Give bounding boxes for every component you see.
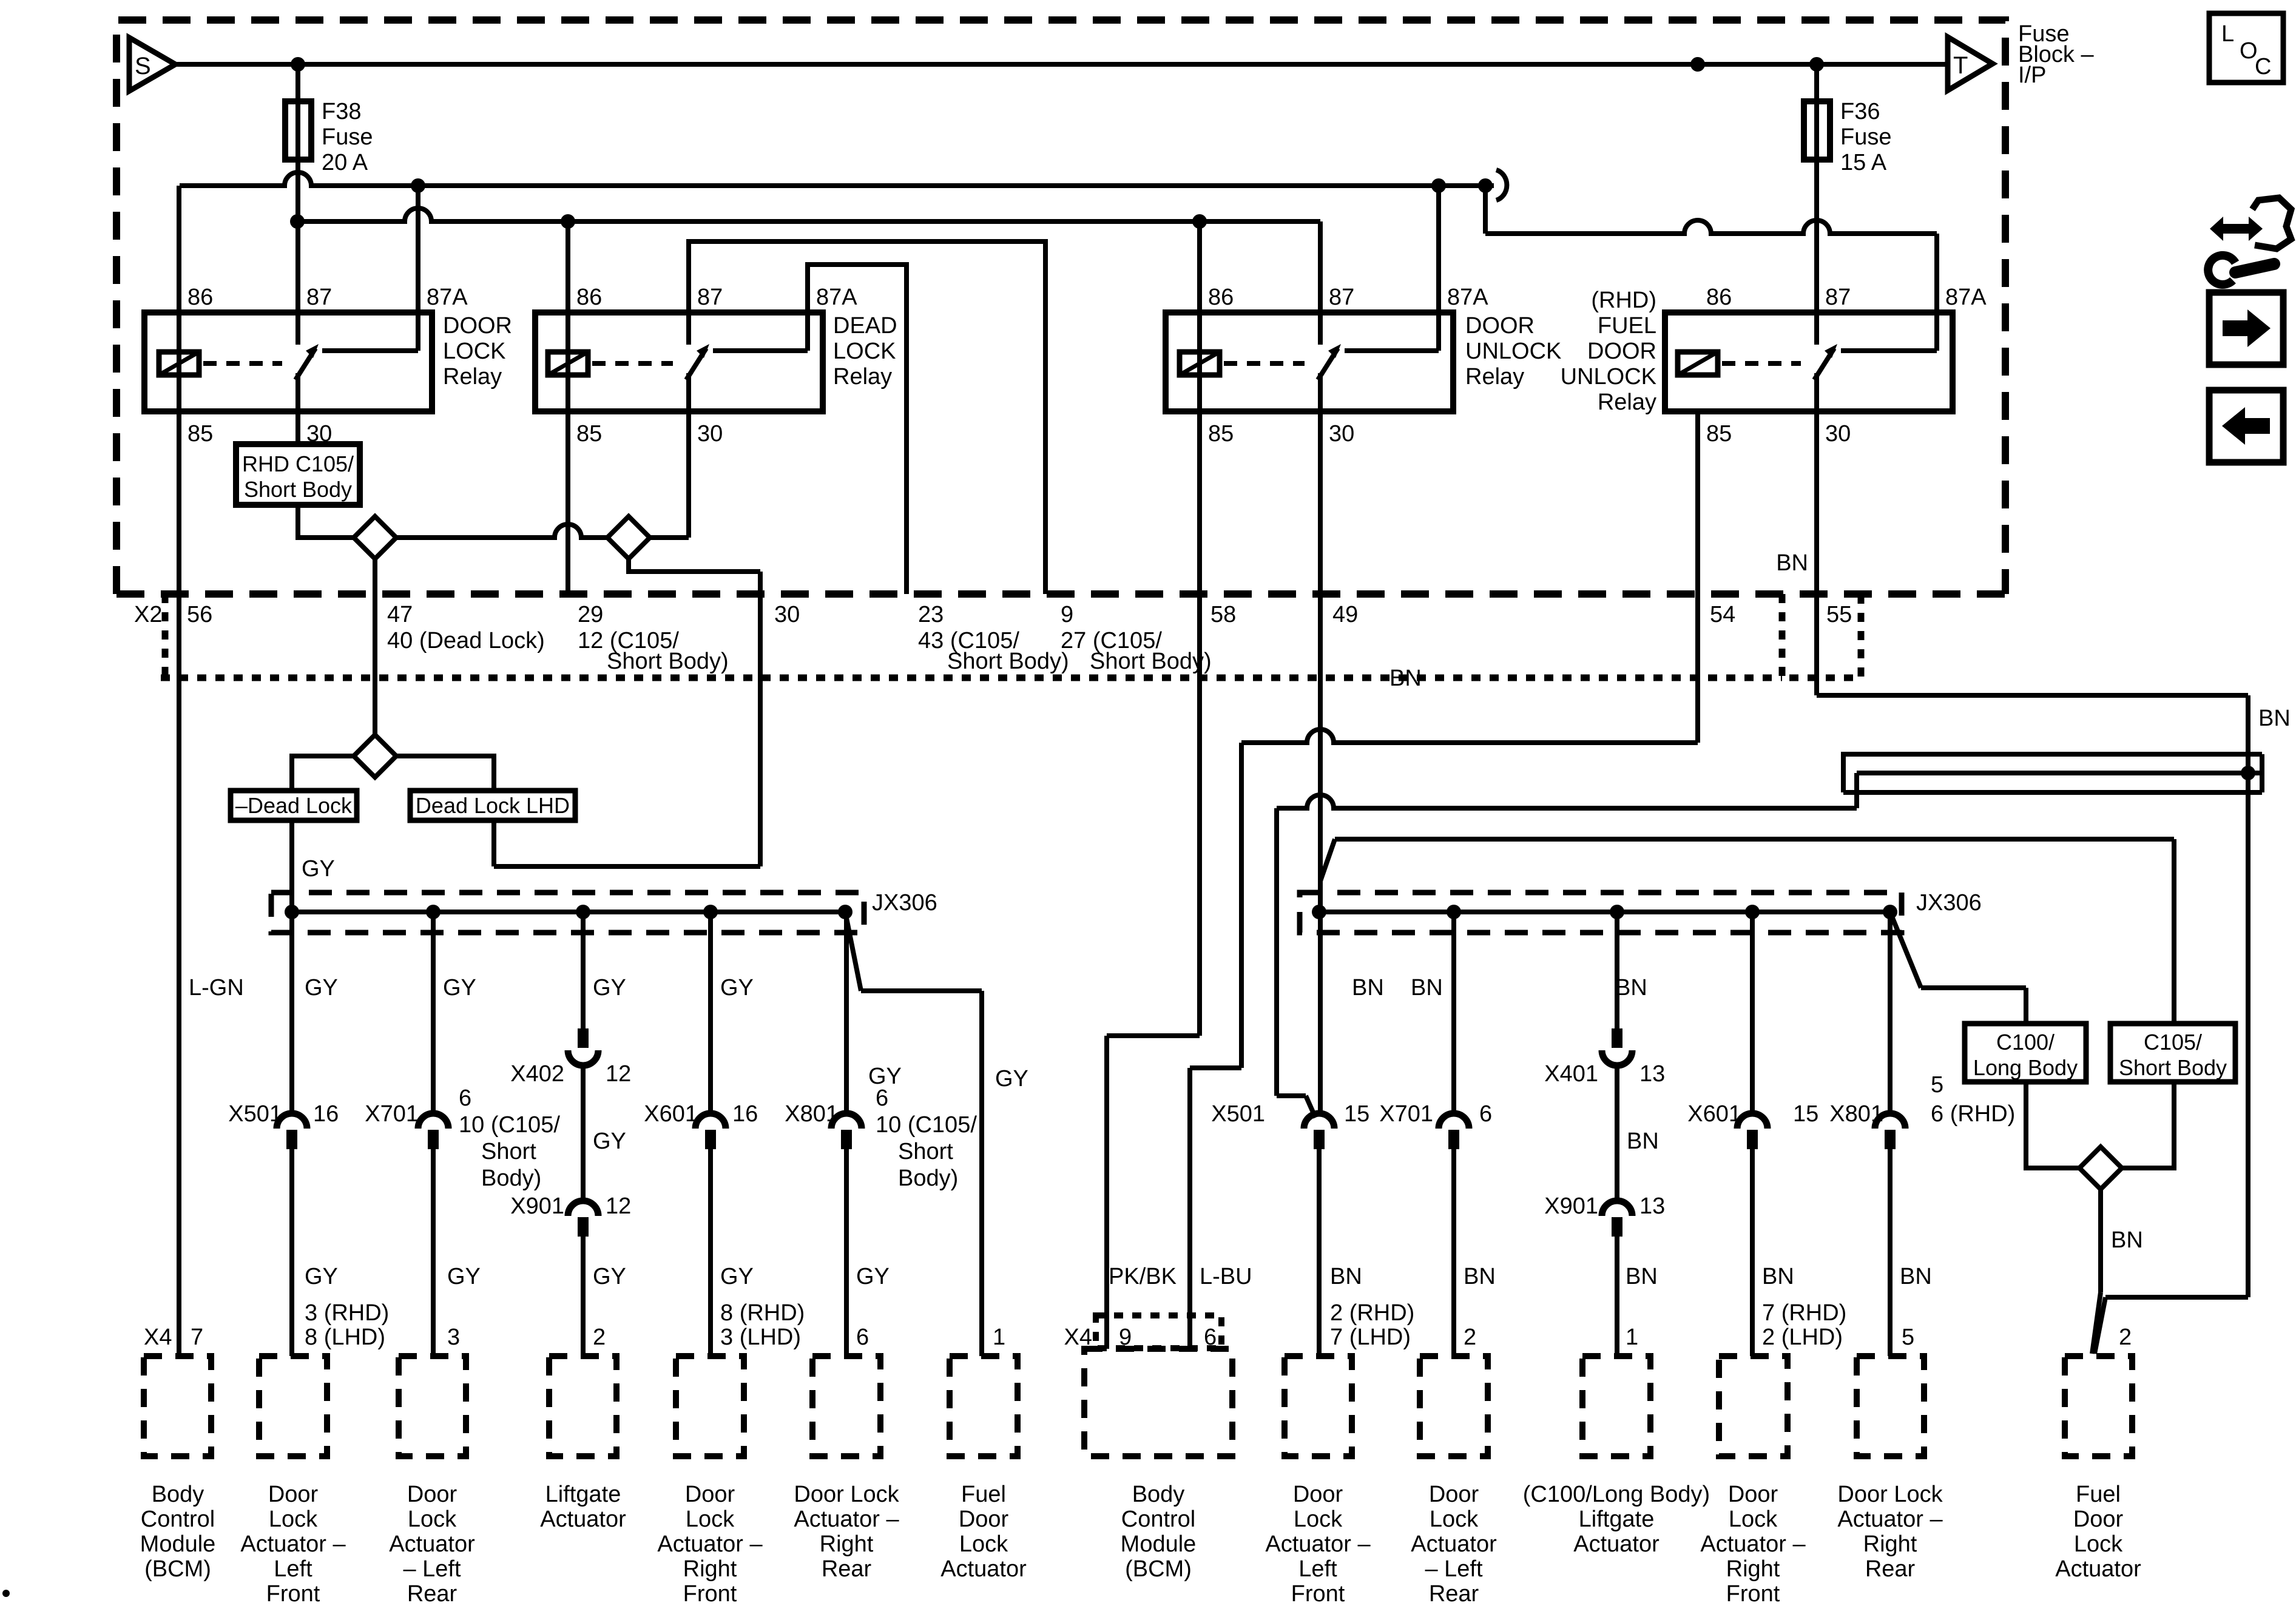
junction: wire A drop to fuel relay branch — [1478, 178, 1493, 193]
label X2 — [134, 602, 162, 627]
component box: Door Lock Actuator Right Rear (left) — [794, 1356, 899, 1582]
svg-text:Door: Door — [407, 1482, 458, 1507]
svg-text:Body): Body) — [898, 1166, 958, 1191]
svg-text:X2: X2 — [134, 602, 162, 627]
svg-text:F36: F36 — [1840, 99, 1880, 124]
label X2 pin 54 — [1710, 602, 1735, 627]
svg-text:BN: BN — [1330, 1264, 1362, 1289]
junction on JX306-right at 2174 — [1312, 905, 1326, 919]
svg-text:6 (RHD): 6 (RHD) — [1931, 1101, 2015, 1127]
svg-text:C: C — [2255, 54, 2271, 79]
svg-text:Actuator: Actuator — [389, 1531, 475, 1557]
svg-text:Lock: Lock — [1294, 1507, 1343, 1532]
relay K3 DOOR UNLOCK — [1166, 285, 1561, 447]
svg-text:DOOR: DOOR — [1587, 339, 1656, 364]
svg-text:2 (RHD): 2 (RHD) — [1330, 1300, 1414, 1326]
wire: relay3-85 to PK/BK BCM — [1107, 1036, 1200, 1349]
svg-text:Fuel: Fuel — [961, 1482, 1006, 1507]
wire: liftgate actuator chain upper — [581, 912, 586, 1030]
label L-GN — [189, 975, 244, 1001]
svg-text:Short: Short — [898, 1139, 953, 1164]
svg-text:30: 30 — [1329, 421, 1354, 447]
junction: bus to F36 — [1809, 57, 1824, 72]
label GY row2 737 — [447, 1264, 481, 1289]
wire: door lock relay 87A drop — [416, 186, 420, 351]
svg-text:16: 16 — [313, 1101, 339, 1127]
label GY row2 1187 — [720, 1264, 754, 1289]
svg-text:Door Lock: Door Lock — [1837, 1482, 1943, 1507]
wire: splice S3 to Dead Lock LHD box — [396, 756, 494, 791]
svg-text:Short: Short — [481, 1139, 536, 1164]
svg-text:29: 29 — [578, 602, 603, 627]
connector X901 left — [510, 1193, 631, 1237]
wire below X601R — [1750, 1148, 1755, 1356]
connector X701 left — [365, 1085, 560, 1191]
svg-text:Relay: Relay — [443, 364, 502, 390]
svg-text:Right: Right — [820, 1531, 874, 1557]
pin label DLA-RF left — [720, 1300, 805, 1350]
svg-text:GY: GY — [593, 1264, 626, 1289]
wire: fuel relay 87A branch — [1485, 186, 1937, 351]
label X2 pin 9 alt — [1061, 628, 1212, 674]
wire: door lock relay 86 / BCM L-GN run — [177, 186, 181, 1356]
connector X701 right — [1379, 1101, 1492, 1149]
svg-text:30: 30 — [697, 421, 723, 447]
svg-text:7: 7 — [191, 1325, 203, 1350]
icon arrow-right box — [2209, 292, 2283, 365]
fuse F36 15A — [1804, 99, 1891, 175]
svg-text:Rear: Rear — [822, 1556, 872, 1582]
icon repair tool (wrench) — [2208, 198, 2291, 285]
svg-text:87: 87 — [1329, 285, 1354, 310]
label X2 pin 23 alt — [918, 628, 1069, 674]
junction: bus to fuel door unlock relay 86 — [1690, 57, 1705, 72]
svg-text:1: 1 — [993, 1325, 1005, 1350]
svg-text:Rear: Rear — [407, 1581, 458, 1607]
wire: JX306R to X701R — [1451, 912, 1456, 1116]
svg-text:Actuator –: Actuator – — [240, 1531, 346, 1557]
wire: BN loop middle to X501R branch — [1857, 773, 2262, 808]
svg-text:Door: Door — [1728, 1482, 1778, 1507]
label GY mid a — [868, 1064, 902, 1089]
pin label liftgate right — [1626, 1325, 1638, 1350]
svg-text:(BCM): (BCM) — [1125, 1556, 1192, 1582]
svg-text:7 (RHD): 7 (RHD) — [1762, 1300, 1846, 1326]
svg-text:Lock: Lock — [1729, 1507, 1778, 1532]
svg-text:BN: BN — [1352, 975, 1384, 1001]
off-page connector T (to Fuse Block I/P) — [1948, 37, 1993, 90]
relay K2 DEAD LOCK — [535, 285, 897, 447]
svg-text:C100/: C100/ — [1996, 1030, 2055, 1055]
connector X601 right — [1687, 1101, 1818, 1149]
svg-text:13: 13 — [1639, 1061, 1665, 1087]
svg-text:6: 6 — [459, 1085, 471, 1111]
svg-text:10 (C105/: 10 (C105/ — [459, 1112, 560, 1138]
wire: door lock relay 30 to RHD C105 connector — [295, 373, 300, 444]
pin label BCM-left X4 7 — [144, 1325, 203, 1350]
svg-text:Actuator: Actuator — [540, 1507, 626, 1532]
svg-text:Short Body): Short Body) — [607, 649, 729, 674]
svg-text:X701: X701 — [1379, 1101, 1433, 1127]
svg-text:Actuator –: Actuator – — [794, 1507, 899, 1532]
svg-text:T: T — [1953, 52, 1968, 79]
svg-text:BN: BN — [1389, 666, 1422, 691]
label X2 pin 9 — [1061, 602, 1073, 627]
svg-text:X801: X801 — [785, 1101, 839, 1127]
svg-text:56: 56 — [187, 602, 212, 627]
component box: Liftgate Actuator (left) — [540, 1356, 626, 1532]
wire X402 to X901 — [581, 1064, 586, 1201]
component box: Door Lock Actuator Left Front (right) — [1265, 1356, 1371, 1607]
label X2 pin 29 — [578, 602, 603, 627]
label BN relay4-30 — [1776, 550, 1808, 576]
pin label fuel right — [2119, 1325, 2132, 1350]
svg-text:LOCK: LOCK — [833, 339, 896, 364]
svg-text:58: 58 — [1210, 602, 1236, 627]
pin label DLA-LF right — [1330, 1300, 1414, 1350]
label GY row2 502 — [305, 1264, 338, 1289]
svg-text:I/P: I/P — [2018, 62, 2046, 88]
junction on JX306-left at 1393 — [838, 905, 853, 919]
splice diamond S4 — [2079, 1147, 2122, 1189]
connector X601 left — [644, 1101, 758, 1149]
svg-text:BN: BN — [1900, 1264, 1932, 1289]
svg-text:Short Body): Short Body) — [947, 649, 1069, 674]
svg-text:Control: Control — [141, 1507, 215, 1532]
svg-text:Door: Door — [2073, 1507, 2124, 1532]
component box: Door Lock Actuator Left Front (left) — [240, 1356, 346, 1607]
wire: JX306 to X501 (door lock act LF) — [431, 912, 436, 1116]
svg-text:Body: Body — [152, 1482, 204, 1507]
svg-text:Lock: Lock — [1430, 1507, 1479, 1532]
label GY row1 730 — [443, 975, 476, 1001]
icon LOC box — [2209, 13, 2283, 83]
svg-text:Relay: Relay — [833, 364, 892, 390]
svg-text:Actuator: Actuator — [940, 1556, 1027, 1582]
svg-text:23: 23 — [918, 602, 944, 627]
svg-text:85: 85 — [576, 421, 602, 447]
svg-text:86: 86 — [187, 285, 213, 310]
junction: wire A to door lock relay 87A — [411, 178, 425, 193]
svg-text:GY: GY — [995, 1066, 1028, 1092]
svg-text:Door: Door — [268, 1482, 319, 1507]
junction: F38 output — [290, 214, 305, 229]
svg-text:Actuator –: Actuator – — [657, 1531, 763, 1557]
svg-text:Relay: Relay — [1465, 364, 1524, 390]
connector X401 — [1544, 1028, 1665, 1087]
svg-text:X601: X601 — [1687, 1101, 1741, 1127]
svg-text:15 A: 15 A — [1840, 150, 1887, 175]
svg-text:Body): Body) — [481, 1166, 541, 1191]
pin label BCM-right X4 9 6 — [1064, 1325, 1217, 1350]
svg-text:GY: GY — [593, 975, 626, 1001]
svg-text:GY: GY — [856, 1264, 890, 1289]
svg-text:15: 15 — [1793, 1101, 1818, 1127]
wire: BN loop outer — [1843, 754, 2262, 792]
svg-text:Right: Right — [1863, 1531, 1917, 1557]
pin label DLA-LR right — [1464, 1325, 1476, 1350]
label GY row2 977 — [593, 1264, 626, 1289]
wire: splice S2 to dead lock relay 30 — [650, 373, 689, 538]
connector box RHD C105/Short Body — [236, 444, 360, 505]
wire: JX306 to X801 (door lock act RR) — [844, 912, 849, 1116]
svg-text:Front: Front — [266, 1581, 320, 1607]
connector box C100/Long Body — [1965, 1024, 2086, 1082]
junction on JX306-right at 2665 — [1610, 905, 1624, 919]
connector X2 pin 55 dotted pocket — [1782, 594, 1861, 678]
svg-text:30: 30 — [774, 602, 800, 627]
wire below X701R — [1451, 1148, 1456, 1356]
wire X401 to X901R — [1615, 1064, 1619, 1201]
wire: door unlock relay 87 drop — [1318, 221, 1323, 345]
svg-text:47: 47 — [387, 602, 413, 627]
wire: C100 to splice S4 — [2026, 1082, 2079, 1168]
label GY above JX306 — [302, 856, 335, 882]
label GY liftgate mid — [593, 1129, 626, 1154]
svg-text:12: 12 — [606, 1193, 631, 1219]
wire below X501 left — [289, 1148, 294, 1356]
wire: splice S2 to X2 pin 30 and Dead Lock LHD — [494, 559, 760, 866]
wire: splice S4 to fuel actuator right — [2092, 1189, 2101, 1354]
wire: relay4-85 X2-54 to L-BU — [1190, 411, 1698, 1349]
svg-text:GY: GY — [305, 1264, 338, 1289]
svg-text:F38: F38 — [322, 99, 361, 124]
wire: relay4-30 X2-55 BN run — [1817, 373, 2248, 1354]
svg-text:Relay: Relay — [1598, 390, 1656, 415]
svg-text:Door: Door — [1293, 1482, 1343, 1507]
junction on JX306-left at 714 — [426, 905, 441, 919]
svg-text:2: 2 — [593, 1325, 606, 1350]
page dot — [2, 1590, 10, 1597]
label X2 pin 49 — [1332, 602, 1358, 627]
svg-text:87: 87 — [306, 285, 332, 310]
svg-text:Door: Door — [1429, 1482, 1479, 1507]
label BN row2 2679 — [1626, 1264, 1658, 1289]
wire: dead lock relay 87 to X2 pin 9 — [689, 241, 1045, 594]
wire: C105 to splice S4 — [2122, 1082, 2174, 1168]
svg-text:87A: 87A — [1945, 285, 1987, 310]
label Fuse Block - I/P — [2018, 21, 2094, 88]
junction: wire A to door unlock relay 87A — [1431, 178, 1446, 193]
svg-text:GY: GY — [868, 1064, 902, 1089]
wire: RHD C105 to splice diamond — [298, 505, 354, 538]
svg-text:Actuator: Actuator — [2055, 1556, 2141, 1582]
svg-text:(BCM): (BCM) — [144, 1556, 211, 1582]
wire below X701 left — [431, 1148, 436, 1356]
svg-text:Fuse: Fuse — [1840, 124, 1891, 150]
wire: dead lock relay 86/85 run — [566, 221, 570, 594]
svg-text:Lock: Lock — [408, 1507, 457, 1532]
svg-text:Short Body): Short Body) — [1090, 649, 1212, 674]
svg-text:6: 6 — [876, 1085, 888, 1111]
connector X901 right — [1544, 1193, 1665, 1237]
wire below X801R — [1888, 1148, 1893, 1356]
connector X2 row dashed line — [116, 590, 2005, 598]
svg-text:3 (LHD): 3 (LHD) — [720, 1325, 801, 1350]
svg-text:C105/: C105/ — [2144, 1030, 2202, 1055]
svg-text:X801: X801 — [1829, 1101, 1883, 1127]
svg-text:FUEL: FUEL — [1598, 313, 1656, 339]
svg-text:5: 5 — [1902, 1325, 1914, 1350]
relay K4 FUEL DOOR UNLOCK — [1561, 285, 1987, 447]
svg-text:Module: Module — [1121, 1531, 1197, 1557]
svg-text:BN: BN — [1776, 550, 1808, 576]
svg-text:JX306: JX306 — [872, 890, 937, 916]
svg-text:Dead Lock LHD: Dead Lock LHD — [416, 793, 570, 818]
svg-text:PK/BK: PK/BK — [1109, 1264, 1177, 1289]
label BN row2 3131 — [1900, 1264, 1932, 1289]
component box: Door Lock Actuator Right Front (left) — [657, 1356, 763, 1607]
wire below X801 left — [844, 1148, 849, 1356]
svg-text:RHD C105/: RHD C105/ — [242, 451, 354, 476]
svg-text:BN: BN — [1627, 1129, 1659, 1154]
svg-text:Control: Control — [1121, 1507, 1196, 1532]
svg-text:1: 1 — [1626, 1325, 1638, 1350]
svg-text:L-GN: L-GN — [189, 975, 244, 1001]
label X2 pin 47 alt — [387, 628, 545, 653]
label X2 pin 23 — [918, 602, 944, 627]
svg-text:40 (Dead Lock): 40 (Dead Lock) — [387, 628, 545, 653]
svg-text:BN: BN — [1626, 1264, 1658, 1289]
svg-text:L: L — [2221, 21, 2234, 47]
connector X501 right — [1211, 1101, 1369, 1149]
svg-text:Short Body: Short Body — [244, 477, 352, 502]
label GY row1 1187 — [720, 975, 754, 1001]
svg-text:–Dead Lock: –Dead Lock — [235, 793, 353, 818]
svg-text:Lock: Lock — [686, 1507, 735, 1532]
svg-text:Left: Left — [1298, 1556, 1337, 1582]
pin label DLA-LR left — [447, 1325, 460, 1350]
svg-text:2: 2 — [1464, 1325, 1476, 1350]
label GY row1 977 — [593, 975, 626, 1001]
svg-text:Fuse: Fuse — [322, 124, 373, 150]
svg-text:UNLOCK: UNLOCK — [1465, 339, 1561, 364]
svg-text:Module: Module — [140, 1531, 216, 1557]
svg-text:Lock: Lock — [2074, 1531, 2123, 1557]
connector box C105/Short Body — [2110, 1024, 2235, 1082]
svg-text:Rear: Rear — [1429, 1581, 1479, 1607]
svg-text:2 (LHD): 2 (LHD) — [1762, 1325, 1843, 1350]
svg-text:10 (C105/: 10 (C105/ — [876, 1112, 977, 1138]
svg-text:GY: GY — [593, 1129, 626, 1154]
wire: H3 C105 branch — [1320, 839, 2174, 1024]
pin label fuel left — [993, 1325, 1005, 1350]
svg-text:87: 87 — [697, 285, 723, 310]
svg-text:12: 12 — [606, 1061, 631, 1087]
off-page connector S (power feed) — [129, 38, 175, 91]
svg-text:8 (LHD): 8 (LHD) — [305, 1325, 385, 1350]
wire: -Dead Lock to JX306 bus (GY) — [289, 820, 294, 1116]
svg-text:Lock: Lock — [959, 1531, 1008, 1557]
wire: JX306 end to fuel door lock actuator — [845, 912, 982, 1356]
wire below X501R — [1317, 1148, 1322, 1356]
label BN row2 2904 — [1762, 1264, 1794, 1289]
wire: splice S1 down to dead-lock splice S3 — [373, 559, 377, 735]
component box: Door Lock Actuator Left Rear (left) — [389, 1356, 475, 1607]
svg-text:Right: Right — [683, 1556, 737, 1582]
icon arrow-left box — [2209, 390, 2283, 462]
svg-text:(C100/Long Body): (C100/Long Body) — [1523, 1482, 1710, 1507]
component box: Door Lock Actuator Right Front (right) — [1700, 1356, 1806, 1607]
svg-text:16: 16 — [732, 1101, 758, 1127]
label X2 pin 55 — [1826, 602, 1852, 627]
svg-text:BN: BN — [1762, 1264, 1794, 1289]
junction on JX306-right at 2888 — [1745, 905, 1760, 919]
wire: splice S3 to -Dead Lock box — [292, 756, 354, 791]
pin label DLA-RF right — [1762, 1300, 1846, 1350]
relay K1 DOOR LOCK — [144, 285, 512, 447]
svg-text:BN: BN — [2111, 1227, 2143, 1253]
label X2 pin 29 alt — [578, 628, 729, 674]
svg-text:GY: GY — [302, 856, 335, 882]
splice diamond S1 — [354, 516, 396, 559]
label GY row1 502 — [305, 975, 338, 1001]
wire: dead lock relay 87A to X2 pin 23 — [808, 265, 907, 594]
box -Dead Lock — [231, 791, 357, 820]
svg-text:30: 30 — [1825, 421, 1851, 447]
pin label DLA-LF left — [305, 1300, 389, 1350]
svg-text:Actuator: Actuator — [1573, 1531, 1660, 1557]
svg-text:49: 49 — [1332, 602, 1358, 627]
svg-text:Right: Right — [1726, 1556, 1780, 1582]
label BN V2 upper — [1389, 666, 1422, 691]
svg-text:Rear: Rear — [1865, 1556, 1916, 1582]
svg-text:55: 55 — [1826, 602, 1852, 627]
svg-text:X901: X901 — [510, 1193, 564, 1219]
junction block JX306 (left) dashed box — [271, 890, 937, 933]
junction on JX306-right at 2396 — [1447, 905, 1461, 919]
svg-text:3 (RHD): 3 (RHD) — [305, 1300, 389, 1326]
svg-text:Actuator –: Actuator – — [1700, 1531, 1806, 1557]
wire: F38 feed / relay 87 drop — [295, 64, 300, 345]
svg-text:87A: 87A — [816, 285, 857, 310]
wire: door unlock relay 30 / X2-49 run V2 — [1318, 373, 1323, 1116]
wire: JX306R to X601R — [1750, 912, 1755, 1116]
component box: Fuel Door Lock Actuator (right) — [2055, 1356, 2141, 1582]
svg-text:Front: Front — [1291, 1581, 1345, 1607]
splice diamond S2 — [607, 516, 650, 559]
label BN row1 2228 — [1352, 975, 1384, 1001]
connector X402 — [510, 1028, 631, 1087]
junction on JX306-right at 3115 — [1883, 905, 1897, 919]
svg-text:DOOR: DOOR — [1465, 313, 1535, 339]
svg-text:LOCK: LOCK — [443, 339, 505, 364]
svg-text:Actuator –: Actuator – — [1265, 1531, 1371, 1557]
svg-text:Front: Front — [683, 1581, 737, 1607]
wire: door unlock relay 87A drop — [1436, 186, 1441, 351]
label BN liftgate mid — [1627, 1129, 1659, 1154]
label BN row2 2192 — [1330, 1264, 1362, 1289]
fuse block I/P dashed enclosure border — [116, 20, 2005, 594]
label BN row2 2412 — [1464, 1264, 1496, 1289]
wire B: F38 output bus y365 — [297, 208, 1320, 221]
connector X2 pin divider (left) — [162, 594, 169, 678]
svg-text:UNLOCK: UNLOCK — [1561, 364, 1656, 390]
wire: JX306 to X601 (door lock act RF) — [708, 912, 713, 1116]
junction: bus to F38 — [291, 57, 305, 72]
label X2 pin 56 — [187, 602, 212, 627]
junction: wire B to door unlock relay 86 — [1192, 214, 1207, 229]
svg-text:20 A: 20 A — [322, 150, 368, 175]
label BN fuel right — [2111, 1227, 2143, 1253]
bus: JX306 left — [292, 910, 845, 914]
svg-text:L-BU: L-BU — [1200, 1264, 1252, 1289]
junction on JX306-left at 961 — [576, 905, 590, 919]
junction: BN loop to W55 — [2241, 766, 2255, 780]
svg-text:JX306: JX306 — [1916, 890, 1982, 916]
svg-text:87A: 87A — [427, 285, 468, 310]
svg-text:13: 13 — [1639, 1193, 1665, 1219]
